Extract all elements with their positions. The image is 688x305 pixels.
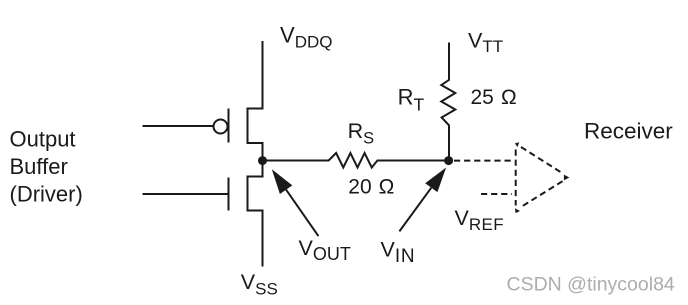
- svg-text:VSS: VSS: [241, 270, 278, 298]
- svg-text:RS: RS: [348, 119, 375, 147]
- svg-text:(Driver): (Driver): [10, 182, 83, 207]
- svg-text:VOUT: VOUT: [299, 236, 351, 264]
- svg-text:20: 20: [348, 176, 371, 199]
- svg-text:Receiver: Receiver: [584, 119, 673, 144]
- svg-text:Buffer: Buffer: [10, 154, 68, 179]
- svg-text:Output: Output: [10, 126, 76, 151]
- svg-text:CSDN @tinycool84: CSDN @tinycool84: [507, 274, 675, 296]
- svg-text:VTT: VTT: [468, 29, 503, 57]
- svg-text:VIN: VIN: [381, 238, 416, 267]
- svg-text:25: 25: [471, 86, 494, 109]
- svg-text:VDDQ: VDDQ: [280, 22, 332, 51]
- svg-text:Ω: Ω: [501, 86, 517, 109]
- svg-text:VREF: VREF: [455, 206, 505, 234]
- svg-text:RT: RT: [398, 85, 425, 115]
- svg-text:Ω: Ω: [379, 176, 395, 199]
